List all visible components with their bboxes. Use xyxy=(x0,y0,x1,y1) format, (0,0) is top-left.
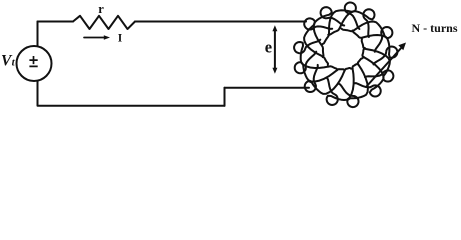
coil turn 2 xyxy=(314,7,345,57)
current arrow I xyxy=(84,37,105,39)
N-turns pointer arrow xyxy=(366,47,403,88)
coil turn 1 xyxy=(322,3,359,45)
wire resistor to toroid xyxy=(135,21,306,23)
svg-text:N - turns: N - turns xyxy=(412,21,458,35)
coil turn 10 xyxy=(362,39,394,82)
wire bottom from source xyxy=(38,81,225,106)
coil turn 12 xyxy=(341,22,392,52)
resistor r xyxy=(73,16,135,29)
wire bottom step up xyxy=(224,88,226,106)
svg-text:r: r xyxy=(98,2,104,16)
wire top to resistor xyxy=(38,21,74,23)
coil turn 7 xyxy=(327,64,359,105)
coil turn 6 xyxy=(305,65,352,94)
coil turn 3 xyxy=(304,18,332,65)
voltage source Vt xyxy=(17,46,52,81)
coil turn 5 xyxy=(295,52,345,82)
svg-text:I: I xyxy=(118,33,123,45)
svg-text:Vt: Vt xyxy=(1,52,16,69)
coil turn 4 xyxy=(294,40,337,70)
wire top-left vertical xyxy=(37,22,39,47)
coil turn 8 xyxy=(339,58,368,107)
coil turn 11 xyxy=(353,31,398,65)
emf arrow e xyxy=(274,29,276,70)
svg-text:e: e xyxy=(265,37,272,56)
wire bottom to toroid xyxy=(225,87,310,89)
coil turn 13 xyxy=(328,9,374,37)
coil turn 9 xyxy=(354,48,383,97)
